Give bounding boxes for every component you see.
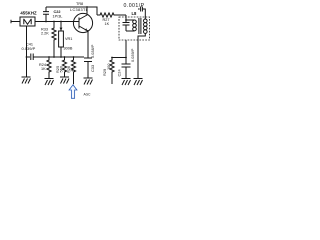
resistor R26 [66,57,76,84]
resistor R29 [102,58,114,85]
resistor R24 [39,57,51,78]
svg-text:300B: 300B [64,47,73,51]
svg-text:1K: 1K [41,67,46,71]
wire collector rail [46,7,97,15]
wire secondary return [137,40,139,79]
transformer secondary winding [138,19,147,40]
svg-text:AGC: AGC [84,92,92,96]
svg-text:1P/3L: 1P/3L [53,15,63,19]
ceramic filter CF1 [20,17,35,26]
node VR1 bottom [60,56,62,58]
svg-text:C22: C22 [54,10,61,14]
node R26 top [73,56,75,58]
resistor R27 [97,13,126,26]
svg-text:455KHZ: 455KHZ [20,11,37,16]
node C41 left [26,56,28,58]
ground C24 [122,79,131,86]
svg-text:0.039/P: 0.039/P [22,46,36,51]
transformer core [139,18,141,34]
node R24 top [48,56,50,58]
resistor R33 [41,22,56,58]
wire input lead [11,20,20,23]
wire bias bus [49,56,84,58]
capacitor 0.001/P [124,3,146,19]
svg-text:560: 560 [58,65,63,72]
node VR1/base [60,21,62,23]
transformer primary winding [126,20,136,31]
capacitor C24 [117,40,136,79]
svg-text:1K: 1K [105,22,110,26]
transformer internal capacitor [123,15,130,31]
svg-text:TR8: TR8 [76,2,83,6]
svg-text:LC383TL: LC383TL [70,8,88,12]
node R25 top [64,56,66,58]
svg-text:C24: C24 [117,69,122,77]
ground filter [22,77,31,84]
node R33/base [53,21,55,23]
svg-text:100: 100 [106,63,111,70]
capacitor C22 [43,7,62,22]
wire VR1 stem with arrow [60,22,63,32]
node R29 top [111,57,113,59]
node C22/base [45,21,47,23]
capacitor C41 [22,43,50,61]
ground R24 [45,79,54,86]
AGC arrow [69,85,77,99]
resistor R25 [55,57,67,77]
svg-text:VR1: VR1 [65,37,72,41]
ground R25 [60,77,69,84]
wire right bus [112,57,126,59]
label 455KHZ [20,11,37,16]
node collector rail [86,6,88,8]
svg-text:2.2K: 2.2K [41,32,49,36]
wire base net [35,21,79,23]
node bias bus left [53,56,55,58]
svg-text:1K: 1K [69,67,74,72]
svg-text:0.038/P: 0.038/P [90,44,95,58]
transistor TR8 [70,2,93,57]
svg-text:L8: L8 [132,11,138,16]
svg-text:0.039/P: 0.039/P [130,48,135,62]
label AGC [84,92,92,96]
capacitor C33 [84,44,95,78]
variable resistor VR1 [59,31,73,57]
svg-text:C33: C33 [90,65,95,72]
wire filter ground drop [26,26,28,77]
IF transformer L8 dashed box [119,11,150,40]
svg-text:0.001/P: 0.001/P [124,3,145,9]
ground secondary [134,79,143,86]
node C24 top [125,57,127,59]
ground C33 [84,78,93,85]
